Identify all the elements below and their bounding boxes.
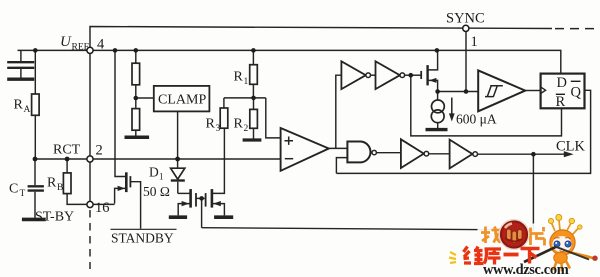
- inverter U8: [450, 140, 478, 169]
- wire UREF rail left of pin 4: [18, 49, 91, 51]
- wire dashed SYNC continuation: [555, 28, 600, 30]
- svg-text:16: 16: [95, 200, 110, 216]
- svg-text:3: 3: [216, 124, 221, 134]
- sparkles: [449, 252, 456, 263]
- resistor R2: [250, 98, 258, 139]
- node R1/R2/R3: [224, 97, 266, 99]
- svg-text:U: U: [60, 34, 72, 50]
- pin 16 ST-BY: [87, 201, 93, 207]
- mascot: [548, 215, 597, 272]
- svg-text:1: 1: [244, 77, 249, 87]
- junction inverter out/Q4 gate/R-bar: [409, 73, 414, 78]
- junction RCT/CLAMP-D1: [175, 157, 180, 162]
- resistor RB: [63, 159, 90, 204]
- svg-text:600 μA: 600 μA: [456, 112, 497, 127]
- junction RCT/RB: [65, 157, 70, 162]
- wire gates to CLK rail: [201, 198, 203, 227]
- junction UREF/divider: [134, 48, 139, 53]
- resistor RA: [32, 50, 39, 159]
- halo behind chars: [478, 223, 504, 248]
- capacitor CT: [28, 159, 44, 218]
- svg-text:D: D: [557, 75, 567, 91]
- transistor Q3 (right of pair): [206, 128, 225, 215]
- ground (CT): [22, 218, 46, 222]
- ground (current source): [426, 128, 448, 131]
- wire NAND lower input from feedback rail: [336, 158, 347, 174]
- svg-text:A: A: [24, 105, 31, 115]
- watermark dzsc.com: [449, 215, 598, 277]
- pin 4 UREF: [87, 47, 93, 53]
- svg-text:R: R: [206, 117, 216, 132]
- wire IC boundary dashed below pin16: [89, 210, 91, 269]
- junction SYNC tap: [464, 89, 469, 94]
- ground (divider): [125, 135, 150, 139]
- pen stick: [524, 247, 556, 262]
- inverter U2: [341, 61, 375, 89]
- svg-text:B: B: [57, 183, 63, 193]
- wire source rail to schmitt input: [438, 91, 479, 93]
- svg-text:SYNC: SYNC: [446, 11, 485, 27]
- wire CLK output with arrow: [478, 151, 574, 157]
- char wei (red): [464, 247, 484, 264]
- UREF divider resistor (lower): [132, 109, 140, 136]
- svg-text:CLK: CLK: [556, 139, 586, 155]
- svg-text:R: R: [47, 176, 57, 191]
- wire ST-BY pin to Q1 source: [90, 203, 115, 205]
- svg-text:2: 2: [244, 124, 249, 134]
- svg-text:2: 2: [96, 143, 103, 159]
- UREF divider resistor (upper): [132, 50, 140, 108]
- junction UREF/R1: [251, 48, 256, 53]
- svg-text:ST-BY: ST-BY: [35, 210, 74, 225]
- resistor R3: [220, 98, 228, 128]
- svg-text:D: D: [149, 165, 159, 180]
- wire top rail from pin4 riser to SYNC: [90, 27, 552, 51]
- schmitt trigger U4: [478, 70, 540, 111]
- junction RCT/RA-CT: [33, 157, 38, 162]
- char pian (piece) orange: [531, 227, 545, 246]
- flip-flop U5: [541, 74, 585, 109]
- junction UREF/cap-RA branch: [33, 48, 38, 53]
- char zhao (find) orange: [481, 227, 501, 244]
- char xia (red): [521, 249, 540, 264]
- junction Q2/Q3 gates: [199, 196, 204, 201]
- wire RCT line: [35, 158, 281, 160]
- op-amp U1 comparator: [281, 128, 329, 171]
- current source I1: [431, 92, 444, 129]
- wire comparator output up to inverter chain: [336, 75, 342, 148]
- svg-text:www.dzsc.com: www.dzsc.com: [483, 262, 569, 277]
- transistor Q1 (stand-by switch): [115, 172, 141, 228]
- svg-text:4: 4: [97, 37, 105, 53]
- junction divider/CLAMP: [134, 96, 139, 101]
- inverter U3: [376, 61, 421, 89]
- wire node to comparator + input: [266, 98, 281, 138]
- svg-text:1: 1: [159, 172, 164, 182]
- svg-text:Q: Q: [571, 85, 582, 101]
- svg-text:50 Ω: 50 Ω: [143, 184, 170, 199]
- junction UREF/Q4 drain: [435, 48, 440, 53]
- svg-text:RCT: RCT: [53, 143, 81, 158]
- char yi (red): [504, 253, 519, 257]
- junction UREF/Q1 drain: [113, 48, 118, 53]
- wire UREF to Q1 drain: [115, 50, 126, 176]
- svg-text:1: 1: [471, 34, 478, 50]
- junction CLK feedback: [531, 152, 536, 157]
- wire IC boundary pin4-pin2: [89, 50, 91, 159]
- svg-text:R: R: [234, 70, 244, 85]
- svg-text:T: T: [20, 189, 26, 199]
- svg-text:R: R: [14, 98, 24, 113]
- resistor R1: [250, 50, 258, 98]
- ground (Q2): [169, 215, 187, 219]
- wire bottom CLK feedback rail: [202, 154, 534, 230]
- wire UREF rail pin4 to D input corner: [90, 50, 561, 73]
- svg-text:C: C: [9, 182, 18, 197]
- svg-text:STANDBY: STANDBY: [111, 231, 174, 246]
- transistor Q4 (sync switch): [421, 50, 437, 91]
- svg-text:R: R: [234, 117, 244, 132]
- wire comparator output to NAND: [329, 147, 348, 149]
- svg-text:REF: REF: [72, 43, 89, 53]
- junction Q4 source/current source: [435, 89, 440, 94]
- ground (R2): [243, 138, 262, 141]
- inverter U7: [401, 139, 450, 168]
- ground (Q3): [214, 215, 233, 219]
- junction R1/R2/R3 node: [251, 96, 256, 101]
- wire CLAMP to RCT node: [177, 111, 179, 159]
- CLAMP block: [136, 86, 210, 112]
- NAND gate U6: [347, 142, 401, 163]
- transistor Q2 (left of pair): [178, 189, 205, 215]
- pin 2 RCT: [87, 156, 93, 162]
- wire gate node down to R-bar line: [411, 75, 562, 136]
- svg-text:CLAMP: CLAMP: [158, 93, 206, 108]
- capacitor on UREF (top-left): [7, 50, 34, 79]
- wire IC boundary pin2-pin16: [89, 159, 91, 205]
- svg-text:R: R: [556, 94, 566, 110]
- wire SYNC vertical: [465, 28, 467, 91]
- red magnifier circle logo: [499, 220, 529, 250]
- pin 1 SYNC: [463, 25, 469, 31]
- arrow 600uA: [449, 98, 455, 122]
- wire Qbar output feedback: [336, 90, 590, 173]
- diode D1: [171, 159, 185, 193]
- char ku (red): [484, 249, 501, 265]
